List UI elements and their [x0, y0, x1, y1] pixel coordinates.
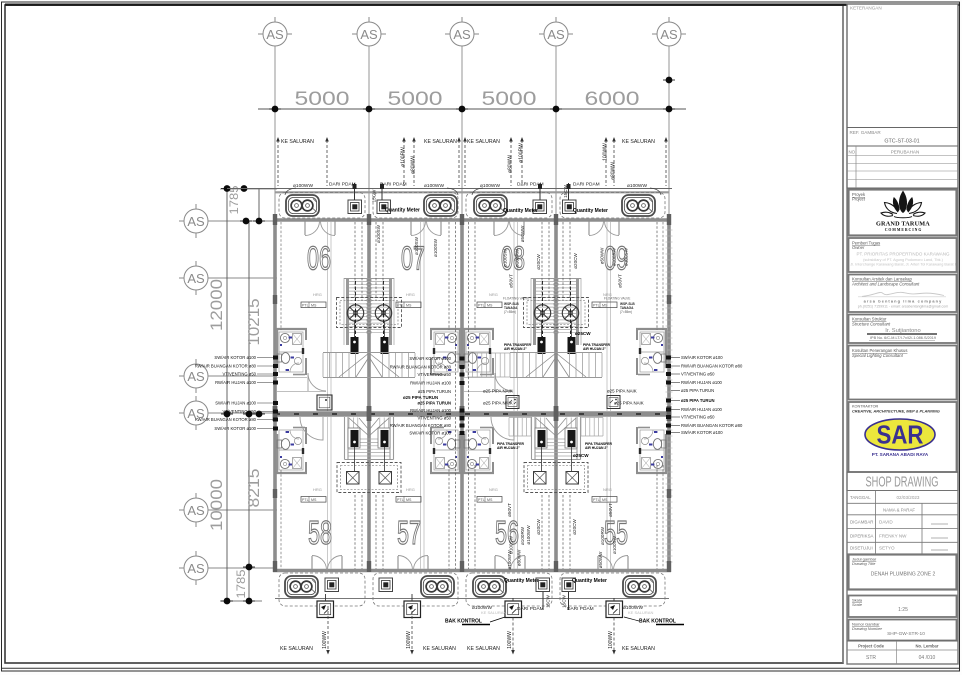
left grid bubbles row2 — [179, 261, 208, 295]
svg-text:MS: MS — [406, 498, 412, 502]
svg-text:10000: 10000 — [207, 479, 226, 531]
grid bubble AS col2 — [352, 17, 386, 46]
svg-text:Quantity Meter: Quantity Meter — [503, 208, 538, 214]
svg-text:KE SALURAN: KE SALURAN — [481, 610, 506, 615]
entry door unit 07 — [411, 222, 441, 236]
svg-text:RW/AIR BUANGAN KOTOR ø80: RW/AIR BUANGAN KOTOR ø80 — [195, 417, 257, 422]
bathroom unit 09 — [636, 328, 667, 375]
bak kontrol unit 56 — [505, 601, 522, 618]
svg-text:Quantity Meter: Quantity Meter — [504, 578, 539, 584]
HRG PTL tag unit 09 — [592, 292, 635, 314]
svg-text:PTL: PTL — [397, 304, 404, 308]
svg-text:NRG: NRG — [489, 292, 498, 297]
svg-text:DARI PDAM: DARI PDAM — [567, 606, 594, 612]
svg-text:DISETUJUI: DISETUJUI — [850, 546, 873, 551]
wall pilasters — [273, 214, 672, 572]
svg-text:ø100WW: ø100WW — [526, 525, 531, 545]
svg-text:ø25CW: ø25CW — [573, 453, 589, 458]
svg-text:KE SALURAN: KE SALURAN — [281, 139, 314, 145]
top dimension line — [258, 108, 686, 110]
svg-text:MS: MS — [487, 304, 493, 308]
svg-text:KE SALURAN: KE SALURAN — [467, 139, 500, 145]
svg-text:ø100RW: ø100RW — [612, 247, 617, 266]
entry door unit 58 — [312, 556, 342, 570]
svg-text:RW/AIR BUANGAN KOTOR ø80: RW/AIR BUANGAN KOTOR ø80 — [390, 365, 452, 370]
svg-text:MS: MS — [311, 304, 317, 308]
svg-text:KE SALURAN: KE SALURAN — [423, 646, 456, 652]
svg-text:6000: 6000 — [585, 89, 640, 110]
water meter unit 09 — [563, 200, 577, 214]
septic tank unit 06 — [286, 195, 319, 216]
entry door unit 57 — [398, 556, 428, 570]
water meter unit 08 — [533, 200, 547, 214]
svg-text:GRAND TARUMA: GRAND TARUMA — [876, 221, 930, 228]
svg-text:ø100SW: ø100SW — [414, 236, 419, 255]
svg-text:ø100SW: ø100SW — [376, 224, 381, 243]
svg-text:BAK KONTROL: BAK KONTROL — [445, 619, 482, 625]
bottom meter court dashed enclosures — [279, 573, 665, 606]
svg-text:MS: MS — [311, 498, 317, 502]
entry door unit 08 — [494, 222, 524, 236]
PDAM feed line unit 06 — [354, 183, 356, 200]
svg-text:TANGGAL: TANGGAL — [850, 495, 871, 500]
svg-text:KE SALURAN: KE SALURAN — [628, 610, 653, 615]
hall boundary unit 06 — [277, 377, 307, 379]
svg-text:MS: MS — [487, 498, 493, 502]
svg-text:15CW: 15CW — [546, 594, 551, 607]
left grid bubbles row6 — [179, 551, 208, 585]
konsultan penerangan box — [849, 346, 957, 400]
bak kontrol unit 57 — [404, 601, 421, 618]
svg-text:SAR: SAR — [877, 420, 924, 450]
grid bubble AS col4 — [539, 17, 573, 46]
center pipe label stack units 06-07 upper — [390, 356, 452, 394]
svg-text:ø20CW: ø20CW — [573, 253, 578, 269]
corridor divider lines unit 06 — [327, 222, 329, 411]
svg-text:Owner: Owner — [852, 245, 865, 250]
svg-text:DARI PDAM: DARI PDAM — [517, 606, 544, 612]
svg-text:100WW: 100WW — [603, 143, 609, 161]
left grid bubbles row4 — [179, 396, 208, 430]
water meter unit 57 — [379, 578, 393, 592]
grid bubble AS col5 — [652, 17, 686, 46]
right pipe label stack lower — [681, 398, 743, 435]
svg-text:(7=55m): (7=55m) — [620, 310, 632, 314]
extended stair treads units 56-55 lower — [509, 418, 603, 437]
svg-text:DAVID: DAVID — [879, 520, 893, 525]
svg-text:Structure Consultant: Structure Consultant — [852, 322, 891, 327]
svg-text:IPB No. 6/C-M.LT/I.7x/I2/-1.08: IPB No. 6/C-M.LT/I.7x/I2/-1.086.S/2019 — [870, 336, 936, 340]
riser pipes bottom band — [328, 606, 614, 652]
grand taruma lotus logo — [893, 191, 913, 214]
svg-text:(subsidiary of PT. Agung Podom: (subsidiary of PT. Agung Podomoro Land, … — [863, 258, 943, 262]
svg-text:VT/VENTING ø50: VT/VENTING ø50 — [681, 372, 715, 377]
bak feed stubs — [325, 594, 327, 601]
svg-text:ø100WW: ø100WW — [507, 550, 512, 570]
svg-text:ø100SW: ø100SW — [624, 247, 629, 266]
stair core units 58-57 — [337, 417, 401, 493]
svg-text:AS: AS — [547, 27, 565, 42]
svg-text:FLOATING VALVE: FLOATING VALVE — [503, 297, 529, 301]
entry door unit 56 — [495, 556, 525, 570]
svg-text:DARI PDAM: DARI PDAM — [573, 182, 600, 188]
svg-text:PTL: PTL — [397, 498, 404, 502]
svg-text:ø20CW: ø20CW — [572, 519, 577, 535]
svg-text:RW/AIR BUANGAN KOTOR ø80: RW/AIR BUANGAN KOTOR ø80 — [390, 423, 452, 428]
septic tank unit 09 — [622, 195, 655, 216]
svg-text:VT/VENTING ø50: VT/VENTING ø50 — [222, 372, 256, 377]
svg-text:RW/AIR HUJAN ø100: RW/AIR HUJAN ø100 — [215, 380, 257, 385]
svg-text:DENAH PLUMBING ZONE 2: DENAH PLUMBING ZONE 2 — [871, 572, 936, 578]
svg-text:REF. GAMBAR: REF. GAMBAR — [850, 130, 882, 135]
svg-text:100WW: 100WW — [406, 631, 412, 649]
grid bubble AS col1 — [258, 17, 292, 46]
svg-text:AS: AS — [453, 27, 471, 42]
svg-text:PTL: PTL — [302, 304, 309, 308]
svg-text:5000: 5000 — [388, 89, 443, 110]
grid bubble AS col3 — [445, 17, 479, 46]
svg-text:FLOATING VALVE: FLOATING VALVE — [604, 297, 630, 301]
svg-text:KE SALURAN: KE SALURAN — [424, 139, 457, 145]
svg-text:12000: 12000 — [207, 279, 226, 331]
svg-text:Ir. Sutjiantono: Ir. Sutjiantono — [885, 328, 920, 334]
HRG PTL tag unit 57 — [396, 487, 421, 502]
svg-text:DARI PDAM: DARI PDAM — [329, 182, 356, 188]
svg-text:DIPERIKSA: DIPERIKSA — [850, 534, 873, 539]
svg-text:Quantity Meter: Quantity Meter — [572, 578, 607, 584]
svg-text:ø25CW: ø25CW — [575, 331, 591, 336]
svg-text:02/03/2023: 02/03/2023 — [897, 495, 920, 500]
right pipe label stack upper — [681, 355, 743, 393]
hall boundary unit 08 — [464, 377, 494, 379]
svg-text:RW/AIR HUJAN ø100: RW/AIR HUJAN ø100 — [410, 408, 452, 413]
svg-text:ø25 PIPA TURUN: ø25 PIPA TURUN — [417, 401, 451, 406]
svg-text:ø50VT: ø50VT — [509, 274, 514, 288]
water meter unit 58 — [325, 578, 339, 592]
svg-text:PTL: PTL — [302, 498, 309, 502]
svg-text:ø50WW: ø50WW — [598, 551, 603, 568]
svg-text:NO.: NO. — [849, 150, 857, 155]
svg-text:MS: MS — [602, 304, 608, 308]
riser pipes top band — [276, 137, 280, 186]
svg-text:Project Code: Project Code — [858, 644, 884, 649]
svg-text:HRG: HRG — [406, 292, 415, 297]
svg-text:10215: 10215 — [246, 299, 263, 346]
top heavy border line — [5, 4, 960, 6]
svg-text:NRG: NRG — [603, 487, 612, 492]
svg-text:GTC-ST-03-01: GTC-ST-03-01 — [884, 139, 919, 145]
svg-text:CREATIVE, ARCHITECTURE, MEP &: CREATIVE, ARCHITECTURE, MEP & PLANNING — [852, 409, 940, 414]
svg-text:NRG: NRG — [489, 487, 498, 492]
svg-text:VT/VENTING ø50: VT/VENTING ø50 — [417, 416, 451, 421]
dim dots on left chains — [221, 185, 233, 192]
svg-text:ø25 PIPA TURUN: ø25 PIPA TURUN — [681, 388, 714, 393]
svg-text:ø100RW: ø100RW — [520, 526, 525, 545]
svg-text:ø100WW: ø100WW — [480, 183, 500, 189]
left vertical dimension chains — [226, 189, 228, 601]
svg-text:Special Lighting Consultant: Special Lighting Consultant — [852, 353, 904, 358]
svg-text:Quantity Meter: Quantity Meter — [385, 208, 420, 214]
svg-text:AIR HUJAN 2": AIR HUJAN 2" — [583, 347, 606, 351]
svg-text:PT. PRIORITAS PROPERTINDO KARA: PT. PRIORITAS PROPERTINDO KARAWANG — [856, 252, 950, 257]
SAR oval logo — [865, 419, 935, 450]
stair core units 06-07 — [323, 278, 415, 378]
svg-text:ø100RW: ø100RW — [515, 248, 520, 267]
svg-text:SW/AIR KOTOR ø100: SW/AIR KOTOR ø100 — [409, 356, 451, 361]
svg-text:C O M M E R C I N G: C O M M E R C I N G — [885, 228, 922, 232]
pemberi tugas box — [849, 238, 957, 272]
svg-text:BAK KONTROL: BAK KONTROL — [639, 619, 676, 625]
svg-text:Scale: Scale — [852, 602, 863, 607]
middle wall door arc unit 08 — [495, 373, 513, 391]
svg-text:HRG: HRG — [406, 487, 415, 492]
corridor divider lines unit 09 — [606, 222, 608, 411]
extended stair treads unit 08 upper — [468, 353, 510, 377]
bathroom unit 57 — [430, 427, 461, 474]
svg-text:ø50VT: ø50VT — [507, 503, 512, 517]
shop drawing title — [847, 472, 958, 491]
svg-text:ø80WW: ø80WW — [611, 162, 617, 180]
top fence line — [227, 188, 672, 190]
HRG PTL tag unit 08 — [477, 292, 529, 314]
svg-text:HRG: HRG — [313, 487, 322, 492]
svg-text:ø80WW: ø80WW — [517, 549, 522, 566]
svg-text:AS: AS — [187, 503, 205, 518]
konsultan arsitek box — [849, 275, 957, 313]
svg-text:ø25 PIPA NAIK: ø25 PIPA NAIK — [607, 389, 637, 394]
footer project code row — [847, 640, 958, 642]
svg-text:5000: 5000 — [482, 89, 537, 110]
svg-text:AS: AS — [187, 369, 205, 384]
bathroom unit 55 — [636, 427, 667, 474]
party wall x462 — [460, 220, 464, 571]
svg-text:AS: AS — [187, 271, 205, 286]
svg-text:(7=55m): (7=55m) — [504, 310, 516, 314]
HRG PTL tag unit 55 — [592, 487, 617, 502]
svg-text:AS: AS — [187, 214, 205, 229]
svg-text:FRENKY NW: FRENKY NW — [879, 534, 907, 539]
rotated labels lower core 56-55 — [507, 503, 617, 566]
svg-text:VT/VENTING ø50: VT/VENTING ø50 — [681, 415, 715, 420]
svg-text:KE SALURAN: KE SALURAN — [280, 646, 313, 652]
party wall x669 with hatch ladder — [667, 220, 671, 571]
bathroom unit 58 — [276, 427, 307, 474]
svg-text:NAMA & PARAF: NAMA & PARAF — [883, 508, 915, 513]
long dashed pipe chases lower half — [281, 417, 663, 569]
title block outer column — [847, 4, 958, 664]
entry door unit 55 — [598, 556, 628, 570]
svg-text:ø100SW: ø100SW — [503, 248, 508, 267]
info table — [847, 491, 958, 555]
svg-text:07: 07 — [401, 240, 425, 277]
svg-text:ø100WW: ø100WW — [293, 183, 313, 189]
rotated labels upper core 08-09 — [414, 225, 629, 288]
svg-text:100WW: 100WW — [608, 631, 614, 649]
bottom exterior wall — [273, 569, 671, 572]
svg-text:15CW: 15CW — [563, 184, 568, 197]
svg-text:VT/VENTING ø50: VT/VENTING ø50 — [417, 372, 451, 377]
party wall x369 — [367, 220, 371, 571]
water meter unit 56 — [536, 578, 550, 592]
svg-text:SW/AIR KOTOR ø100: SW/AIR KOTOR ø100 — [409, 431, 451, 436]
svg-text:ø25 PIPA TURUN: ø25 PIPA TURUN — [418, 389, 451, 394]
svg-text:SETYO: SETYO — [879, 546, 895, 551]
svg-text:AIR HUJAN 2": AIR HUJAN 2" — [497, 446, 520, 450]
left grid bubbles row5 — [179, 493, 208, 527]
svg-text:AS: AS — [187, 561, 205, 576]
top exterior wall — [273, 218, 671, 221]
svg-text:AS: AS — [266, 27, 284, 42]
konsultan struktur box — [849, 315, 957, 344]
svg-text:ø100RW: ø100RW — [519, 143, 525, 163]
svg-text:ø80WW: ø80WW — [508, 155, 514, 173]
HRG PTL tag unit 06 — [301, 292, 326, 308]
svg-text:MS: MS — [406, 304, 412, 308]
svg-text:Drawing Title: Drawing Title — [852, 561, 876, 566]
svg-text:SHOP DRAWING: SHOP DRAWING — [866, 475, 939, 491]
left pipe label stack upper — [195, 355, 257, 385]
skala box — [849, 596, 957, 618]
svg-text:15CW: 15CW — [372, 189, 377, 202]
svg-text:8215: 8215 — [246, 469, 263, 508]
middle wall door arc unit 06 — [308, 373, 326, 391]
svg-text:Quantity Meter: Quantity Meter — [573, 208, 608, 214]
leader hooks to septic tanks — [285, 188, 661, 195]
svg-text:SW/AIR KOTOR ø100: SW/AIR KOTOR ø100 — [681, 355, 723, 360]
entry door unit 06 — [305, 222, 335, 236]
septic tank unit 55 — [623, 576, 656, 597]
svg-text:HRG: HRG — [313, 292, 322, 297]
bathroom unit 56 — [463, 427, 494, 474]
bathroom unit 08 — [463, 328, 494, 375]
top meter court dashed enclosures — [279, 193, 665, 219]
svg-text:ph.(0251) 7159911 - email: ars: ph.(0251) 7159911 - email: arsabentangli… — [858, 305, 948, 309]
svg-text:KETERANGAN: KETERANGAN — [850, 6, 882, 11]
svg-text:15CW: 15CW — [562, 594, 567, 607]
svg-text:SW/AIR KOTOR ø100: SW/AIR KOTOR ø100 — [214, 355, 256, 360]
lower inner door arc unit 56 — [491, 417, 514, 440]
corridor divider lines unit 08 — [513, 222, 515, 411]
septic tank unit 07 — [424, 195, 457, 216]
svg-text:KE SALURAN: KE SALURAN — [622, 139, 655, 145]
svg-text:PTL: PTL — [593, 304, 600, 308]
septic tank unit 58 — [285, 576, 318, 597]
svg-text:MS: MS — [602, 498, 608, 502]
svg-text:PTL: PTL — [478, 304, 485, 308]
svg-text:KE SALURAN: KE SALURAN — [622, 646, 655, 652]
shower drain boxes mid-left units — [317, 395, 332, 410]
svg-text:AIR HUJAN 2": AIR HUJAN 2" — [504, 347, 527, 351]
middle party wall — [273, 411, 671, 417]
long dashed pipe chases upper half — [281, 222, 663, 411]
PDAM feed line unit 56 — [542, 592, 544, 610]
rotated labels near top of lower units (courtyard) — [433, 238, 603, 569]
PDAM feed line unit 55 — [568, 592, 570, 610]
lower inner door arc unit 58 — [300, 417, 323, 440]
HRG PTL tag unit 58 — [301, 487, 326, 502]
svg-text:ø25 PIPA TURUN: ø25 PIPA TURUN — [403, 395, 438, 400]
water meter unit 07 — [377, 200, 391, 214]
svg-text:RW/AIR HUJAN ø100: RW/AIR HUJAN ø100 — [681, 407, 723, 412]
svg-text:Project: Project — [852, 197, 866, 202]
svg-text:ø50VT: ø50VT — [608, 503, 613, 517]
left grid bubbles row3 — [179, 359, 208, 393]
svg-text:SW/AIR HUJAN ø100: SW/AIR HUJAN ø100 — [215, 401, 256, 406]
svg-text:100WW: 100WW — [322, 631, 328, 649]
ref gambar box — [847, 128, 958, 147]
septic tank unit 08 — [474, 195, 507, 216]
svg-text:ø100SW: ø100SW — [612, 535, 617, 554]
svg-text:56: 56 — [495, 514, 519, 551]
svg-text:SHP-GW-STR-10: SHP-GW-STR-10 — [887, 631, 925, 637]
svg-text:ø100WW: ø100WW — [424, 183, 444, 189]
svg-text:ø100SW: ø100SW — [433, 238, 438, 257]
svg-text:VT/VENTING ø50: VT/VENTING ø50 — [222, 409, 256, 414]
svg-text:1:25: 1:25 — [898, 607, 908, 613]
svg-text:ø20CW: ø20CW — [536, 519, 541, 535]
svg-text:AIR HUJAN 2": AIR HUJAN 2" — [585, 446, 608, 450]
svg-text:06: 06 — [307, 240, 331, 277]
water meter unit 06 — [348, 200, 362, 214]
PDAM feed line unit 08 — [539, 183, 541, 200]
svg-text:ø25 PIPA NAIK: ø25 PIPA NAIK — [483, 389, 513, 394]
proyek box with grand taruma logo — [849, 190, 957, 236]
svg-text:Drawing Number: Drawing Number — [852, 626, 883, 631]
PDAM feed line unit 09 — [568, 183, 570, 200]
PDAM feed line unit 07 — [381, 183, 383, 200]
stair core units 08-09 — [510, 278, 602, 378]
svg-text:ø50WW: ø50WW — [600, 247, 605, 264]
svg-text:PTL: PTL — [478, 498, 485, 502]
top grid column lines — [275, 46, 669, 220]
svg-text:100WW: 100WW — [507, 631, 513, 649]
svg-text:AS: AS — [660, 27, 678, 42]
corridor divider lines unit 07 — [420, 222, 422, 411]
bak kontrol unit 55 — [606, 601, 623, 618]
svg-text:ø100WW: ø100WW — [627, 183, 647, 189]
svg-text:ø50VT: ø50VT — [618, 274, 623, 288]
svg-text:5000: 5000 — [295, 89, 350, 110]
svg-text:DIGAMBAR: DIGAMBAR — [850, 520, 873, 525]
svg-text:RW/AIR HUJAN ø100: RW/AIR HUJAN ø100 — [681, 380, 723, 385]
svg-text:ø25 PIPA NAIK: ø25 PIPA NAIK — [614, 401, 644, 406]
party wall x556 — [554, 220, 558, 571]
svg-text:57: 57 — [397, 514, 421, 551]
judul gambar box — [849, 555, 957, 590]
entry door unit 09 — [589, 222, 619, 236]
svg-text:ø50WW: ø50WW — [520, 225, 525, 242]
keterangan box — [847, 4, 958, 128]
bak kontrol unit 58 — [317, 601, 334, 618]
svg-text:RW/AIR BUANGAN KOTOR ø80: RW/AIR BUANGAN KOTOR ø80 — [195, 364, 257, 369]
svg-text:SW/AIR KOTOR ø100: SW/AIR KOTOR ø100 — [681, 430, 723, 435]
svg-text:RW/AIR BUANGAN KOTOR ø80: RW/AIR BUANGAN KOTOR ø80 — [681, 423, 743, 428]
svg-text:1785: 1785 — [234, 569, 248, 598]
septic tank unit 56 — [473, 576, 506, 597]
svg-text:DARI PDAM: DARI PDAM — [380, 182, 407, 188]
svg-text:ø100RW: ø100RW — [600, 526, 605, 545]
svg-text:04 /010: 04 /010 — [919, 655, 936, 661]
svg-text:ø20CW: ø20CW — [536, 254, 541, 270]
nomor gambar box — [849, 620, 957, 641]
water meter unit 55 — [562, 578, 576, 592]
center pipe label stack units 58-57 lower — [390, 401, 452, 436]
svg-text:arsa bentang lima company: arsa bentang lima company — [864, 299, 943, 304]
party wall x275 — [273, 220, 277, 571]
bathroom unit 06 — [276, 328, 307, 375]
svg-text:Architect and Landscape Consul: Architect and Landscape Consultant — [851, 282, 920, 287]
bathroom unit 07 — [430, 328, 461, 375]
